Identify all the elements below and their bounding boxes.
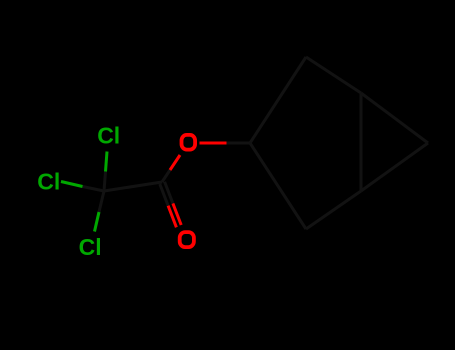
- bridge bond upper: [361, 93, 428, 143]
- ring edge lower-right: [306, 191, 361, 229]
- ring edge upper-right: [306, 57, 361, 93]
- ring edge upper-left: [250, 57, 306, 143]
- label O carbonyl: [180, 232, 194, 247]
- bridge bond lower: [361, 143, 428, 191]
- bond C-Cl bottom (dark carbon half): [99, 191, 104, 212]
- svg-text:Cl: Cl: [97, 123, 120, 149]
- ester C-O single bond red half: [170, 155, 180, 170]
- ester C-O single bond dark half: [162, 170, 170, 182]
- carbonyl C=O double bond line 1 red half: [168, 206, 176, 228]
- bond C-Cl top (green chlorine half): [106, 152, 108, 172]
- bond C-Cl bottom (green chlorine half): [95, 212, 100, 232]
- ester O to ring bond dark half: [227, 142, 251, 145]
- bond C-Cl left (green chlorine half): [61, 182, 83, 187]
- svg-text:Cl: Cl: [79, 234, 102, 260]
- ester O to ring bond red half: [200, 142, 227, 145]
- bond C-Cl top (dark carbon half): [104, 172, 106, 192]
- bond C-C (trichloromethyl C to carbonyl C): [104, 182, 162, 191]
- label O ester: [182, 135, 196, 150]
- bond C-Cl left (dark carbon half): [83, 187, 105, 192]
- svg-text:Cl: Cl: [37, 169, 60, 195]
- carbonyl C=O double bond line 1 dark half: [160, 184, 168, 206]
- carbonyl C=O double bond line 2 dark half: [165, 182, 173, 204]
- carbonyl C=O double bond line 2 red half: [173, 203, 181, 225]
- ring edge lower-left: [250, 143, 306, 229]
- ring right vertical bond: [360, 93, 363, 191]
